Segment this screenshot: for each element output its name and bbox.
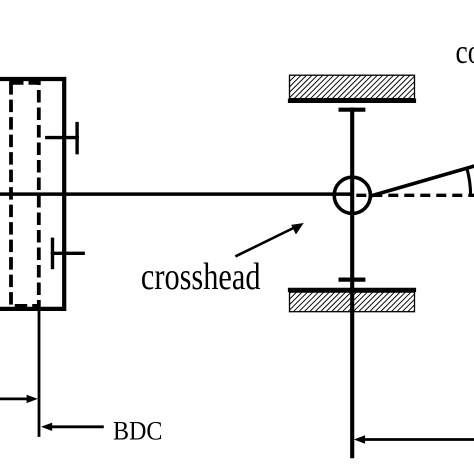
slider top tick <box>339 108 366 112</box>
upper guide hatching <box>290 75 415 98</box>
connecting rod <box>371 166 474 197</box>
upper guide surface <box>288 99 416 103</box>
slider bottom tick <box>339 278 366 282</box>
lower guide hatching <box>290 292 415 312</box>
svg-text:connecting rod: connecting rod <box>456 34 474 71</box>
BDC extension line <box>38 307 41 437</box>
piston (dashed outline at BDC) <box>11 83 39 306</box>
lower port T-mark <box>51 238 85 270</box>
centerline (dashed) to the right <box>356 194 474 197</box>
dimension arrow pointing right at BDC line <box>0 395 38 403</box>
stroke dimension arrow pointing left at crosshead centerline <box>354 435 474 443</box>
svg-text:crosshead: crosshead <box>141 256 261 298</box>
BDC dimension arrow pointing left <box>41 423 104 431</box>
lower guide surface <box>288 288 416 292</box>
crosshead pin circle <box>334 177 370 213</box>
crosshead slider centerline <box>350 108 354 459</box>
piston rod <box>0 192 352 196</box>
angle arc <box>467 167 471 195</box>
svg-text:BDC: BDC <box>113 417 163 446</box>
crosshead pointer arrow <box>235 223 303 256</box>
cylinder <box>0 79 64 309</box>
upper port T-mark <box>45 122 79 154</box>
